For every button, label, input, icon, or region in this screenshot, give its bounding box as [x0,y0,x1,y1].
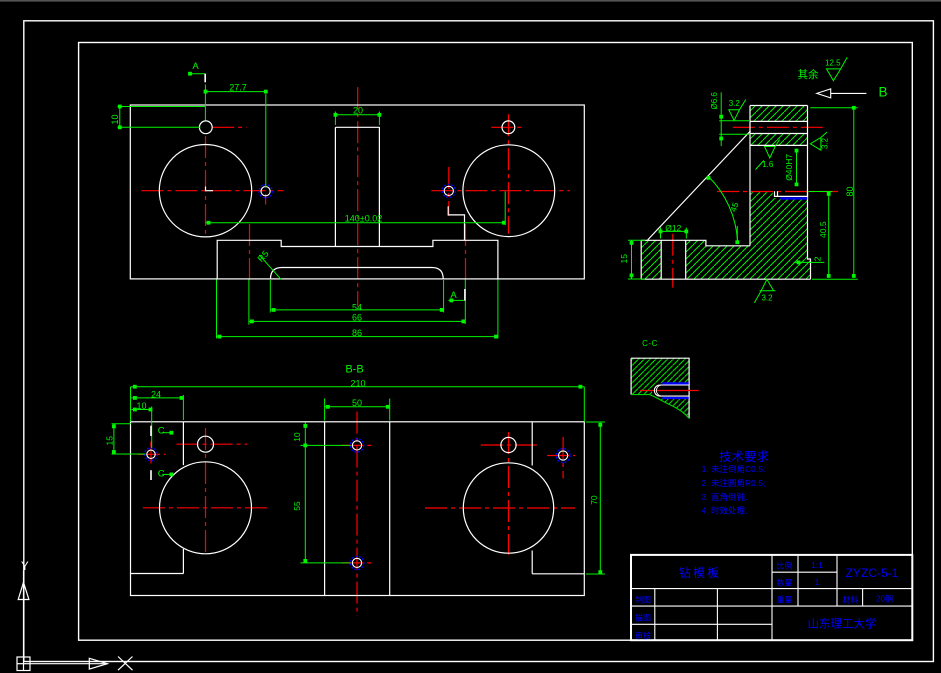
svg-text:10: 10 [136,401,146,411]
svg-text:钻模板: 钻模板 [679,565,721,580]
svg-text:66: 66 [352,313,362,323]
svg-text:40.5: 40.5 [818,221,828,238]
svg-text:10: 10 [292,432,302,442]
svg-text:2. 未注圆角R0.5;: 2. 未注圆角R0.5; [702,478,766,488]
svg-text:Ø12: Ø12 [665,223,681,233]
svg-text:10: 10 [110,114,120,124]
svg-text:27.7: 27.7 [229,83,247,93]
svg-text:B-B: B-B [345,364,363,376]
svg-text:210: 210 [350,378,365,388]
svg-text:比例: 比例 [777,561,793,571]
svg-text:2: 2 [813,256,823,261]
svg-text:15: 15 [619,254,629,264]
svg-text:12.5: 12.5 [825,58,841,67]
svg-text:1. 未注倒角C0.5:: 1. 未注倒角C0.5: [702,464,766,474]
svg-text:1:1: 1:1 [811,560,823,570]
svg-text:C: C [158,468,165,479]
svg-text:A: A [192,61,199,72]
svg-text:140±0.02: 140±0.02 [345,214,382,224]
svg-text:3.2: 3.2 [821,137,830,149]
svg-text:制图: 制图 [635,595,651,605]
svg-text:数量: 数量 [777,578,793,588]
svg-text:A: A [450,290,457,301]
svg-text:Y: Y [21,561,29,573]
svg-text:24: 24 [151,389,161,399]
svg-text:3.2: 3.2 [729,99,741,108]
svg-text:重量: 重量 [777,595,793,605]
svg-text:Ø6.6: Ø6.6 [710,92,719,110]
svg-text:3.2: 3.2 [761,294,773,303]
svg-text:审核: 审核 [635,631,651,641]
svg-text:1: 1 [815,577,820,587]
svg-text:Ø40H7: Ø40H7 [784,154,794,181]
svg-text:ZYZC-5-1: ZYZC-5-1 [846,566,899,580]
svg-text:15: 15 [104,436,114,446]
svg-text:C-C: C-C [642,339,658,348]
svg-text:材料: 材料 [843,595,859,605]
svg-text:54: 54 [352,302,362,312]
svg-text:其余: 其余 [798,68,819,81]
svg-text:4. 时效处理.: 4. 时效处理. [702,506,748,516]
svg-text:描图: 描图 [635,613,651,623]
svg-text:C: C [158,425,165,436]
svg-text:50: 50 [352,398,362,408]
svg-text:3. 直角倒钝.: 3. 直角倒钝. [702,492,748,502]
svg-text:1.6: 1.6 [762,160,774,169]
svg-text:20钢: 20钢 [876,594,893,604]
svg-text:山东理工大学: 山东理工大学 [808,617,877,631]
svg-text:B: B [879,85,888,100]
svg-text:86: 86 [352,328,362,338]
svg-text:80: 80 [845,186,855,196]
svg-text:20: 20 [353,106,363,116]
svg-text:70: 70 [589,495,599,505]
svg-text:55: 55 [292,501,302,511]
svg-text:技术要求: 技术要求 [719,450,770,464]
